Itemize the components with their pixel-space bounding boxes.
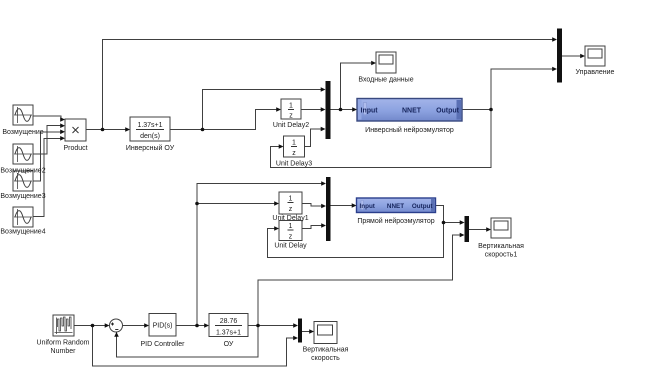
svg-text:NNET: NNET [402, 108, 422, 115]
wire Mux3 output to scope Vertikalnaya skorost1 [469, 229, 487, 231]
svg-text:den(s): den(s) [140, 133, 160, 140]
wire branch Inverse OU output up to Mux1 input1 [203, 90, 322, 130]
wire OU output branch up to Mux3 input2 [258, 235, 460, 326]
sine icon 1 [14, 107, 32, 123]
mux Mux1 [326, 81, 331, 139]
arrowhead Mux1 input2 [321, 107, 326, 112]
arrowhead scope Vertikalnaya skorost1 input [486, 227, 491, 232]
source block Vozmushchenie4 (sine 4) [13, 207, 33, 227]
arrowhead Mux3 input2 [460, 233, 465, 238]
arrowhead Sum input bottom [114, 332, 119, 337]
block OU transfer function [209, 314, 248, 337]
wire Product output up to top bus to Mux4 [103, 40, 553, 130]
scope block Vertikalnaya skorost1 [491, 218, 511, 238]
scope block Vhodnye dannye [376, 52, 396, 73]
arrowhead Mux2 input1 [321, 181, 326, 186]
svg-text:Управление: Управление [576, 69, 615, 76]
sum block (circle) [110, 319, 123, 332]
value 1/z in Unit Delay2 [288, 103, 294, 120]
arrowhead PID input [144, 323, 149, 328]
junction NNET2 output [442, 221, 446, 225]
wire Unit Delay output to Mux2 input3 [302, 226, 322, 229]
source block Vozmushchenie3 (sine 3) [13, 171, 33, 191]
wire OU output to Mux5 input1 [248, 325, 294, 327]
svg-text:NNET: NNET [387, 203, 404, 210]
wire Unit Delay2 output to Mux1 input2 [301, 109, 321, 111]
arrowhead Mux1 input1 [321, 87, 326, 92]
svg-text:Инверсный нейроэмулятор: Инверсный нейроэмулятор [365, 126, 454, 134]
svg-text:Возмущение3: Возмущение3 [0, 193, 45, 200]
value 1/z in Unit Delay [288, 223, 294, 241]
wire Mux5 output to scope Vertikalnaya skorost [302, 331, 310, 333]
wire sine1 to Product [33, 116, 61, 120]
svg-text:PID Controller: PID Controller [141, 341, 186, 348]
wire NNET2 output right and down [436, 206, 444, 223]
value 1/z in Unit Delay1 [288, 196, 294, 214]
svg-text:Возмущение: Возмущение [2, 129, 43, 136]
wire Uniform Random Number output to Sum [74, 325, 105, 327]
arrowhead Mux2 input2 [321, 204, 326, 209]
arrowhead Product input2 [60, 123, 65, 128]
svg-text:1.37s+1: 1.37s+1 [216, 330, 241, 337]
arrowhead NNET1 input [352, 107, 357, 112]
svg-text:Unit Delay1: Unit Delay1 [272, 215, 308, 222]
svg-text:Uniform Random: Uniform Random [37, 340, 90, 347]
arrowhead Mux4 input2 [552, 67, 557, 72]
arrowhead Unit Delay3 input [279, 144, 284, 149]
svg-text:Product: Product [63, 145, 87, 152]
svg-text:Input: Input [360, 203, 376, 210]
sine icon 2 [14, 146, 32, 162]
svg-text:z: z [289, 113, 293, 120]
arrowhead scope Upravlenie input [580, 54, 585, 59]
mux Mux5 [298, 319, 302, 343]
svg-text:скорость: скорость [311, 355, 340, 362]
svg-text:28.76: 28.76 [220, 318, 238, 325]
svg-text:скорость1: скорость1 [485, 252, 518, 259]
arrowhead Unit Delay1 input [274, 201, 279, 206]
wire NNET2 output feedback loop to Unit Delay input [268, 223, 444, 258]
block Unit Delay [279, 221, 302, 241]
block Unit Delay1 [279, 192, 302, 214]
block NNET2 Pryamoy neuroemulator [357, 198, 436, 213]
junction PID output [195, 324, 199, 328]
svg-text:1: 1 [289, 223, 293, 230]
arrowhead Sum input left [105, 323, 110, 328]
value 1/z in Unit Delay3 [291, 140, 297, 158]
mux Mux3 [465, 216, 470, 242]
junction Mux1 output [339, 108, 343, 112]
junction Uniform Random output [91, 324, 95, 328]
arrowhead Mux5 input2 [293, 336, 298, 341]
junction Product output [101, 128, 105, 132]
wire sine4 to Product [33, 138, 61, 216]
arrowhead NNET2 input [352, 203, 357, 208]
wire Mux4 output to scope Upravlenie [562, 55, 581, 57]
junction NNET1 output [489, 108, 493, 112]
svg-text:Unit Delay3: Unit Delay3 [276, 161, 312, 168]
svg-text:1: 1 [292, 140, 296, 147]
block Unit Delay2 [281, 99, 301, 119]
wire branch Mux1 output up to scope Vhodnye dannye [341, 63, 372, 110]
wire Mux1 output to NNET1 input [331, 109, 353, 111]
scope block Vertikalnaya skorost [314, 322, 337, 344]
arrowhead Product input4 [60, 136, 65, 141]
wire sine3 to Product [33, 132, 61, 181]
svg-text:Входные данные: Входные данные [358, 77, 413, 84]
block Product [65, 119, 86, 141]
arrowhead top bus into Mux4 [552, 37, 557, 42]
wire Sum output to PID Controller [123, 325, 145, 327]
svg-text:Output: Output [412, 203, 434, 210]
arrowhead Mux3 input1 [460, 220, 465, 225]
svg-text:Output: Output [436, 108, 460, 115]
arrowhead Product input3 [60, 130, 65, 135]
arrowhead Mux5 input1 [293, 323, 298, 328]
source block Vozmushchenie2 (sine 2) [13, 144, 33, 164]
svg-text:Input: Input [361, 108, 379, 115]
junction OU output [256, 324, 260, 328]
wire Unit Delay3 output to Mux1 input3 [305, 129, 322, 147]
svg-text:Инверсный ОУ: Инверсный ОУ [126, 144, 175, 152]
arrowhead Mux1 input3 [321, 127, 326, 132]
junction Inverse OU output [201, 128, 205, 132]
block NNET1 Inverse neuroemulator [357, 99, 462, 122]
wire NNET1 output right [462, 109, 491, 111]
block PID Controller [149, 314, 176, 337]
arrowhead Unit Delay input [274, 226, 279, 231]
svg-text:Возмущение2: Возмущение2 [0, 168, 45, 175]
arrowhead Mux2 input3 [321, 223, 326, 228]
svg-text:PID(s): PID(s) [153, 323, 173, 330]
wire PID branch to Unit Delay1 input [197, 203, 275, 205]
arrowhead Inverse OU input [125, 127, 130, 132]
junction PID branch to Unit Delay1 [195, 202, 199, 206]
source block Vozmushchenie (sine 1) [13, 105, 33, 125]
wire PID output branch up to Mux2 input1 [197, 184, 322, 326]
wire NNET2 output to Mux3 input1 [444, 222, 461, 224]
svg-text:Возмущение4: Возмущение4 [0, 229, 45, 236]
wire Inverse OU output to Unit Delay2 [170, 110, 277, 130]
wire Mux2 output to NNET2 input [331, 205, 353, 207]
arrowhead scope Vertikalnaya skorost input [309, 329, 314, 334]
arrowhead Unit Delay2 input [276, 107, 281, 112]
svg-text:Unit Delay: Unit Delay [274, 243, 307, 250]
mux Mux4 [557, 29, 562, 83]
value 28.76 over 1.37s+1 in OU [215, 318, 242, 337]
svg-text:Прямой нейроэмулятор: Прямой нейроэмулятор [357, 217, 434, 225]
svg-text:z: z [289, 234, 293, 241]
scope block Upravlenie [585, 46, 605, 66]
value 1.37s+1 over den(s) in Inverse OU [136, 122, 164, 140]
wire PID output to OU [176, 325, 205, 327]
svg-text:Number: Number [51, 348, 77, 355]
svg-text:ОУ: ОУ [224, 341, 234, 348]
wire Unit Delay1 output to Mux2 input2 [302, 204, 322, 207]
wire Product output to Inverse OU [86, 129, 126, 131]
arrowhead OU input [204, 323, 209, 328]
svg-text:1: 1 [289, 196, 293, 203]
arrowhead scope Vhodnye dannye input [371, 61, 376, 66]
svg-text:1.37s+1: 1.37s+1 [137, 122, 162, 129]
sine icon 3 [14, 173, 32, 189]
sine icon 4 [14, 209, 32, 225]
block Unit Delay3 [284, 136, 305, 157]
wire sine2 to Product [33, 126, 61, 154]
block Inverse OU transfer function [130, 117, 170, 141]
mux Mux2 [326, 177, 331, 241]
svg-text:z: z [289, 206, 293, 213]
svg-text:Вертикальная: Вертикальная [478, 243, 524, 250]
wire NNET1 output feedback down to Unit Delay3 input [271, 110, 492, 168]
svg-text:Unit Delay2: Unit Delay2 [273, 122, 309, 129]
wire reference branch down to Mux5 input2 [93, 326, 295, 367]
uniform random number icon [55, 317, 73, 334]
block Uniform Random Number [53, 315, 74, 336]
product cross icon [73, 127, 79, 133]
arrowhead Product input1 [60, 117, 65, 122]
svg-text:z: z [292, 150, 296, 157]
svg-text:1: 1 [289, 103, 293, 110]
svg-text:Вертикальная: Вертикальная [303, 347, 349, 354]
wire OU output feedback down to Sum minus input [117, 326, 259, 358]
wire NNET1 output up to Mux4 input2 [491, 69, 553, 110]
